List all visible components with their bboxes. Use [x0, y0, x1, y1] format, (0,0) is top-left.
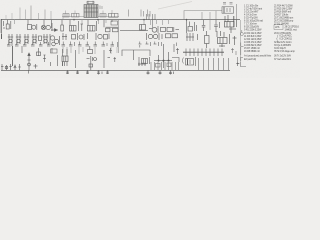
wire: vertical x52 [51, 48, 58, 53]
bus tick 8 [213, 49, 215, 57]
wire: vertical x63 to rail [62, 17, 64, 20]
wire: vertical x75 [75, 50, 77, 68]
wire: top-left drop x12 [11, 13, 13, 20]
middle component bands [1, 15, 236, 33]
transistor Q7 cluster [96, 33, 109, 40]
bus tick 6 [205, 49, 207, 57]
connector comb to ground rail [199, 58, 229, 70]
wire: junction row with dots [154, 44, 172, 68]
wire stub x176 [176, 43, 178, 47]
wire: comb drop x111 [110, 47, 112, 54]
third band y41-47 [7, 42, 177, 48]
diode ladder D3 [16, 34, 21, 44]
cap C9 [31, 42, 35, 46]
IC U2 box [88, 20, 97, 31]
cap C24 below rail [76, 70, 79, 74]
node mark [87, 33, 89, 39]
cap C30 below rail mid [169, 70, 174, 74]
transformer T1 side marks [100, 6, 102, 10]
cap C28 below rail mid [147, 70, 150, 74]
wire: top-left drop x38 [38, 13, 40, 20]
capacitor C4 [202, 20, 206, 31]
bus tick 9 [217, 49, 219, 57]
wire: stub above R3 [102, 11, 104, 14]
cap row right: C12 [62, 42, 66, 47]
connector J1 left edge marks [1, 19, 5, 33]
IC U4 dense cluster right [225, 15, 237, 33]
cap C29 below rail mid [159, 70, 162, 74]
diode ladder D5 [32, 34, 42, 44]
wire: comb drop x79 [78, 47, 80, 54]
wire: vertical x57 [57, 55, 59, 66]
schematic right border corner [241, 62, 247, 67]
capacitor C3 box [140, 25, 146, 31]
resistor R11 vertical box [205, 31, 210, 48]
wire: vertical x22 [21, 46, 23, 53]
bus tick 7 [209, 49, 211, 57]
lower-left region y48-66 [13, 20, 180, 74]
cap C27 below rail [106, 70, 109, 74]
cap C20 [146, 42, 151, 47]
cap C25 below rail [86, 70, 89, 74]
wire: drop x14 [14, 20, 16, 24]
wire: vertical x236 right edge top [236, 4, 238, 20]
mid caps: C19 [139, 42, 142, 48]
bus tick 2 [189, 49, 191, 57]
junction dot on rail x98 [97, 19, 99, 21]
capacitor C1 marks [141, 10, 144, 17]
inductor L1 box and core [28, 20, 37, 30]
bus: horizontal line with tick comb [183, 51, 224, 53]
transistor Q6 pair [50, 34, 60, 45]
cap C17 [102, 42, 108, 47]
wire: vertical x210 [209, 12, 211, 30]
wire stub x117 [117, 42, 119, 47]
relay K1 box [222, 7, 234, 13]
electrolytic caps row: C6 [7, 42, 11, 46]
cap C16 [94, 42, 98, 47]
label marks x138-146 [138, 63, 146, 67]
wire: extra drops x82-x106 [82, 20, 106, 24]
terminal lug 1 [1, 64, 4, 70]
junction dot on rail x144 [143, 19, 145, 21]
cap C7 [15, 42, 19, 46]
legend parts list text [244, 4, 299, 61]
transistor Q4 cluster [149, 26, 158, 33]
transformer T1 dense block [84, 5, 98, 18]
transistor Q5 cluster [187, 20, 197, 33]
node label 4 [1, 34, 3, 40]
wire: vertical x216 [215, 11, 217, 20]
wire: comb drop x83 [82, 47, 84, 52]
IC U5 verticals [186, 33, 198, 41]
wire: comb drop x63 [62, 47, 64, 53]
bus tick 1 [185, 49, 187, 57]
paper grain overlay [0, 0, 1, 1]
node ring at right edge [240, 30, 243, 36]
transistor Q8 cluster mid [147, 33, 163, 40]
wire: vertical x128 stub [128, 10, 130, 17]
cap C10 [39, 42, 43, 46]
cap C13 [69, 42, 75, 47]
capacitor C5 [214, 20, 219, 32]
bracket mark [183, 58, 184, 64]
wire: secondary top rail over IC row [62, 16, 119, 18]
wire: bottom ground rail [1, 69, 230, 71]
wire: vertical pair at x152 crossing rail [153, 14, 156, 28]
wire: L corner right edge [241, 43, 244, 47]
wire: top-left drop x20 [19, 8, 21, 20]
cap C18 [111, 42, 115, 47]
wire: stub above R1 [65, 11, 67, 14]
switch S1 cluster [37, 48, 47, 62]
wire: right edge stub lower [241, 47, 243, 61]
lower-right bus region [183, 48, 240, 70]
IC U8 box [186, 57, 196, 66]
terminal lug 2 [5, 65, 8, 70]
connector comb mid: pins [151, 62, 179, 70]
transistor Q2 pair [41, 20, 52, 31]
capacitor C2 marks [148, 10, 151, 17]
resistor R1 row box [63, 14, 69, 17]
cap C8 [23, 42, 27, 46]
diode D1 arrow [51, 20, 58, 32]
resistor R5 cluster [6, 20, 11, 29]
wire: vertical x115 [114, 57, 117, 62]
resistor R10 boxes [166, 34, 178, 38]
resistor R9 cluster [72, 33, 85, 40]
wire: long vertical feed x12 [12, 46, 14, 66]
cap C26 below rail [97, 70, 102, 74]
wire stub x50 [50, 62, 52, 66]
junction cross [34, 64, 38, 69]
schematic right border vertical [240, 20, 242, 62]
cap C14 [78, 42, 82, 47]
wire: vertical x104 [104, 50, 110, 68]
wire: comb drop x71 [70, 47, 72, 53]
wire: top-left drop x6 [5, 15, 7, 20]
resistor R8 cluster [62, 33, 67, 40]
bus tick 5 [201, 49, 203, 57]
wire: top box horizontal x184-x222 [184, 11, 222, 20]
wire: comb drop x95 [94, 47, 96, 54]
diode D7 [109, 48, 112, 53]
diode ladder D2 [8, 34, 13, 46]
resistor R6 [61, 20, 64, 31]
diode ladder D6 [43, 34, 48, 44]
bus tick 10 [221, 49, 223, 57]
cap C21 [154, 42, 162, 47]
wire: comb drop x67 [66, 47, 68, 54]
terminal lug 3 [9, 64, 12, 70]
cap C23 below rail [66, 70, 69, 74]
wire: top-left drop x45 [44, 10, 46, 20]
resistor R7 boxes [161, 27, 180, 32]
sub-circuit bracket [122, 50, 150, 60]
wire: top-left drop x25 [25, 10, 27, 20]
junction dot on rail x74 [73, 19, 75, 21]
wire: mid rail left of U3 [120, 30, 148, 32]
bottom row above ground rail [1, 20, 246, 75]
diode ladder D4 [24, 34, 29, 44]
terminal lug 4 [14, 65, 16, 71]
wire: vertical pair at x146 crossing rail [146, 14, 149, 20]
wire: top-left drop x51 [50, 11, 52, 20]
wire: comb drop x117 [116, 47, 118, 53]
wire: corner into right block [172, 44, 179, 62]
resistor R2 row box [72, 13, 80, 17]
trimmer VR2 cluster [87, 56, 97, 70]
wire: top-left drop x31 [30, 6, 32, 20]
terminal lug 5 [18, 64, 21, 70]
wire: vertical x118 [118, 20, 120, 53]
resistor R3 row box [100, 14, 106, 17]
cap C11 [47, 42, 55, 46]
wire: main top supply rail [1, 19, 240, 21]
resistor R4 row box [109, 13, 119, 17]
capacitor C22 [88, 46, 93, 54]
IC U7 cluster [139, 57, 150, 66]
label marks above relay K1 [223, 3, 233, 5]
IC U1 box [70, 20, 84, 31]
transformer T1 top terminal marks [87, 1, 94, 5]
terminal marks right edge [231, 48, 240, 64]
junction dot on rail x186 [186, 19, 188, 21]
wire: stub x177 [176, 48, 179, 54]
IC U6 cluster [217, 31, 237, 47]
wire: stub above R4 [111, 10, 113, 13]
wire stub x237 [236, 62, 239, 66]
potentiometer VR1 arrow [28, 53, 31, 74]
wire: vertical x202 [201, 12, 203, 20]
bus tick 3 [193, 49, 195, 57]
cap C15 [86, 42, 90, 47]
crystal Y1 box [62, 49, 68, 66]
bus tick 4 [197, 49, 199, 57]
wire: drops below top rail mid [144, 20, 169, 25]
second band y33-40 [2, 31, 237, 48]
wire pair x63 [63, 62, 65, 66]
wire: stub above R2 [74, 11, 76, 14]
resistor network RN1 [104, 20, 119, 32]
wire: faint diagonal scan streak [158, 2, 192, 10]
